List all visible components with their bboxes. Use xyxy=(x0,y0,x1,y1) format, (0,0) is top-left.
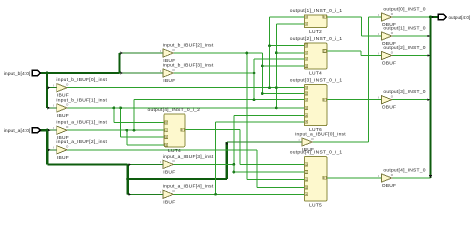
svg-text:input_a_IBUF[3]_inst: input_a_IBUF[3]_inst xyxy=(163,154,214,160)
buffer input_a_IBUF[3]_inst xyxy=(163,160,173,168)
svg-text:output[3]_INST_0_i_1: output[3]_INST_0_i_1 xyxy=(290,78,343,84)
svg-text:output[2]_INST_0: output[2]_INST_0 xyxy=(383,45,425,51)
svg-text:output[3]_INST_0: output[3]_INST_0 xyxy=(383,89,425,95)
svg-text:I: I xyxy=(378,174,379,178)
svg-text:I3: I3 xyxy=(165,143,168,147)
svg-text:O: O xyxy=(323,98,325,102)
wire input_a trunk horizontal y179 xyxy=(128,178,227,180)
buffer input_b_IBUF[0]_inst xyxy=(57,84,67,92)
svg-text:LUT6: LUT6 xyxy=(309,127,322,133)
lut output[4]_INST_0_i_1 LUT5 xyxy=(304,157,327,202)
svg-text:I: I xyxy=(53,146,54,150)
svg-text:output[0]_INST_0: output[0]_INST_0 xyxy=(383,6,425,12)
svg-text:I: I xyxy=(53,126,54,130)
svg-text:OBUF: OBUF xyxy=(382,61,397,67)
net a1 riser to LUT6 I2 xyxy=(133,100,135,131)
node input_a junction xyxy=(46,129,49,132)
svg-text:output[2]_INST_0_i_1: output[2]_INST_0_i_1 xyxy=(290,36,343,42)
buffer output[3]_INST_0 OBUF xyxy=(382,96,392,104)
net b3: input_b_IBUF[3] out with jog up to LUT4 I2 and down xyxy=(174,72,254,74)
svg-text:I: I xyxy=(160,69,161,73)
wire output bus to port xyxy=(431,16,438,18)
buffer output[1]_INST_0 OBUF xyxy=(382,32,392,40)
wire input_a trunk vertical x226.8 xyxy=(226,142,228,179)
svg-text:I0: I0 xyxy=(305,163,308,167)
wire input_a trunk vertical x127.7 xyxy=(127,165,129,195)
node junction dots xyxy=(113,107,116,110)
wire input_a trunk horizontal y164.6 xyxy=(47,164,127,166)
net a4: input_a_IBUF[4] out to LUT5 I4 xyxy=(174,193,305,195)
buffer input_b_IBUF[1]_inst xyxy=(57,104,67,112)
svg-text:I: I xyxy=(160,49,161,53)
net a1: input_a_IBUF[1] out to mid LUT4 I1 xyxy=(67,129,164,131)
svg-text:I: I xyxy=(378,51,379,55)
wire to input_b_IBUF[3] input xyxy=(120,72,164,74)
port output[4:0] xyxy=(438,14,446,19)
svg-text:input_a_IBUF[2]_inst: input_a_IBUF[2]_inst xyxy=(56,139,107,145)
svg-text:I5: I5 xyxy=(305,120,308,124)
svg-text:I2: I2 xyxy=(165,135,168,139)
svg-text:O: O xyxy=(323,49,325,53)
node input_b junction xyxy=(45,71,48,74)
svg-text:output[4]_INST_0_i_2: output[4]_INST_0_i_2 xyxy=(148,107,201,113)
svg-text:IBUF: IBUF xyxy=(57,155,69,161)
buffer output[2]_INST_0 OBUF xyxy=(382,51,392,59)
net OBUF4 out xyxy=(392,177,431,179)
svg-text:I2: I2 xyxy=(305,98,308,102)
wire input_b trunk horizontal xyxy=(41,72,120,74)
net a4 riser to LUT6 I5 xyxy=(215,122,217,195)
svg-text:I2: I2 xyxy=(305,178,308,182)
svg-text:I0: I0 xyxy=(305,44,308,48)
svg-text:IBUF: IBUF xyxy=(163,169,175,175)
svg-text:input_b_IBUF[1]_inst: input_b_IBUF[1]_inst xyxy=(56,97,107,103)
wire to input_b_IBUF[0] input xyxy=(47,87,57,89)
net V2 to LUT2 I1 and LUT4 I1 xyxy=(275,24,277,108)
svg-text:I: I xyxy=(299,138,300,142)
node output bus junctions xyxy=(427,35,429,38)
svg-text:I1: I1 xyxy=(165,129,168,133)
svg-text:output[4:0]: output[4:0] xyxy=(449,15,471,20)
svg-text:I: I xyxy=(378,96,379,100)
svg-text:output[1]_INST_0_i_1: output[1]_INST_0_i_1 xyxy=(290,8,343,14)
svg-text:O: O xyxy=(323,176,325,180)
net b1: input_b_IBUF[1] out to LUT6 I3 xyxy=(67,107,304,109)
net LUT4 output to OBUF2 xyxy=(327,50,361,52)
net LUT5 output to OBUF4 xyxy=(327,177,382,179)
wire to input_a_IBUF[2] input xyxy=(47,149,56,151)
svg-text:OBUF: OBUF xyxy=(382,183,397,189)
buffer output[0]_INST_0 OBUF xyxy=(382,13,392,21)
wire input_a trunk vertical x47.3 xyxy=(46,130,48,164)
wire input_a trunk stub xyxy=(41,129,48,131)
svg-text:I3: I3 xyxy=(305,186,308,190)
svg-text:I: I xyxy=(53,84,54,88)
wire output bus vertical xyxy=(429,17,431,178)
svg-text:I: I xyxy=(378,32,379,36)
net b2 branch to LUT5 I2 xyxy=(246,53,248,179)
net OBUF2 out xyxy=(392,55,431,57)
net V1 to LUT2 I0 and LUT4 I0 xyxy=(269,17,271,88)
svg-text:output[1]_INST_0: output[1]_INST_0 xyxy=(383,25,425,31)
buffer input_a_IBUF[0]_inst xyxy=(302,138,312,146)
net a2: input_a_IBUF[2] out, jog to LUT5 I3 xyxy=(67,149,257,151)
svg-text:I1: I1 xyxy=(305,51,308,55)
svg-text:OBUF: OBUF xyxy=(382,105,397,111)
svg-text:I1: I1 xyxy=(305,22,308,26)
svg-text:input_a_IBUF[4]_inst: input_a_IBUF[4]_inst xyxy=(163,184,214,190)
svg-text:O: O xyxy=(323,15,325,19)
svg-text:I2: I2 xyxy=(305,57,308,61)
svg-text:IBUF: IBUF xyxy=(163,78,175,84)
svg-text:LUT4: LUT4 xyxy=(309,70,322,76)
wire to input_b_IBUF[1] input xyxy=(47,107,57,109)
net b1 drop to mid LUT4 I0 xyxy=(113,108,115,123)
svg-text:input_b_IBUF[3]_inst: input_b_IBUF[3]_inst xyxy=(163,62,214,68)
net LUT6 output to OBUF3 xyxy=(327,99,382,101)
svg-text:LUT4: LUT4 xyxy=(168,148,181,154)
svg-text:I0: I0 xyxy=(305,15,308,19)
net a3: input_a_IBUF[3] out with riser/dropper xyxy=(174,163,234,165)
buffer input_b_IBUF[2]_inst xyxy=(163,49,173,57)
svg-text:IBUF: IBUF xyxy=(57,113,69,119)
buffer input_a_IBUF[1]_inst xyxy=(57,126,67,134)
buffer output[4]_INST_0 OBUF xyxy=(382,174,392,182)
net b0: input_b_IBUF[0] out to LUT6 I0 xyxy=(67,87,304,89)
svg-text:I0: I0 xyxy=(165,121,168,125)
svg-text:I3: I3 xyxy=(305,64,308,68)
svg-text:input_b[4:0]: input_b[4:0] xyxy=(4,71,31,77)
lut output[3]_INST_0_i_1 LUT6 xyxy=(304,85,327,126)
port input_b[4:0] xyxy=(32,70,40,75)
lut output[2]_INST_0_i_1 LUT4 xyxy=(304,43,327,69)
net a1 drop to mid LUT4 I3 xyxy=(126,130,128,145)
buffer input_a_IBUF[2]_inst xyxy=(57,146,67,154)
svg-text:output[4]_INST_0_i_1: output[4]_INST_0_i_1 xyxy=(290,150,343,156)
svg-text:I: I xyxy=(160,160,161,164)
svg-text:I1: I1 xyxy=(305,170,308,174)
svg-text:I4: I4 xyxy=(305,114,308,118)
svg-text:I1: I1 xyxy=(305,92,308,96)
net OBUF0 out xyxy=(392,16,431,18)
svg-text:LUT5: LUT5 xyxy=(309,202,322,208)
wire input_b trunk vertical x47 xyxy=(46,73,48,108)
svg-text:O: O xyxy=(181,128,183,132)
net b2: input_b_IBUF[2] out with branches xyxy=(174,52,263,54)
net b1 drop to mid LUT4 I2 xyxy=(120,108,122,137)
buffer input_a_IBUF[4]_inst xyxy=(163,190,173,198)
lut output[1]_INST_0_i_1 LUT2 xyxy=(304,15,327,28)
svg-text:input_a_IBUF[1]_inst: input_a_IBUF[1]_inst xyxy=(56,120,107,126)
svg-text:I4: I4 xyxy=(305,193,308,197)
wire to input_a_IBUF[0] input xyxy=(227,141,302,143)
port input_a[4:0] xyxy=(32,128,40,133)
net a0: input_a_IBUF[0] out up to OBUF0 xyxy=(312,141,368,143)
svg-text:I3: I3 xyxy=(305,106,308,110)
svg-text:I: I xyxy=(160,190,161,194)
svg-text:I: I xyxy=(378,13,379,17)
svg-text:input_b_IBUF[2]_inst: input_b_IBUF[2]_inst xyxy=(163,42,214,48)
svg-text:input_b_IBUF[0]_inst: input_b_IBUF[0]_inst xyxy=(56,77,107,83)
wire input_b trunk vertical x119.6 xyxy=(118,53,120,73)
wire to input_b_IBUF[2] input xyxy=(120,52,164,54)
svg-text:input_a[4:0]: input_a[4:0] xyxy=(4,128,31,134)
svg-text:I: I xyxy=(53,104,54,108)
net OBUF1 out xyxy=(392,35,431,37)
net LUT2 output to OBUF1 xyxy=(327,16,362,18)
svg-text:output[4]_INST_0: output[4]_INST_0 xyxy=(383,167,425,173)
svg-text:IBUF: IBUF xyxy=(163,199,175,205)
buffer input_b_IBUF[3]_inst xyxy=(163,69,173,77)
svg-text:LUT2: LUT2 xyxy=(309,29,322,35)
net mid LUT4 output to LUT5 I0 xyxy=(185,129,240,131)
lut output[4]_INST_0_i_2 LUT4 mid xyxy=(164,114,185,147)
svg-text:I0: I0 xyxy=(305,86,308,90)
wire to input_a_IBUF[1] input xyxy=(47,129,56,131)
net OBUF3 out xyxy=(392,99,431,101)
wire to input_a_IBUF[3] input xyxy=(128,164,163,166)
wire to input_a_IBUF[4] input xyxy=(128,193,163,195)
